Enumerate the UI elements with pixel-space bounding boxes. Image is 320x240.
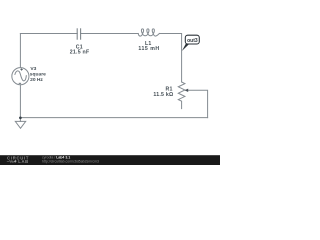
svg-text:115 mH: 115 mH (138, 46, 159, 52)
svg-text:http://circuitlab.com/c6d5ab2s: http://circuitlab.com/c6d5ab2smrcm3 (42, 160, 99, 164)
svg-text:square: square (30, 72, 46, 78)
svg-text:out3: out3 (187, 38, 198, 44)
svg-text:11.5 kΩ: 11.5 kΩ (153, 92, 173, 98)
svg-text:V3: V3 (30, 66, 36, 72)
svg-text:20 Hz: 20 Hz (30, 77, 43, 83)
svg-text:21.5 nF: 21.5 nF (70, 50, 90, 56)
svg-text:LAB: LAB (18, 159, 29, 164)
